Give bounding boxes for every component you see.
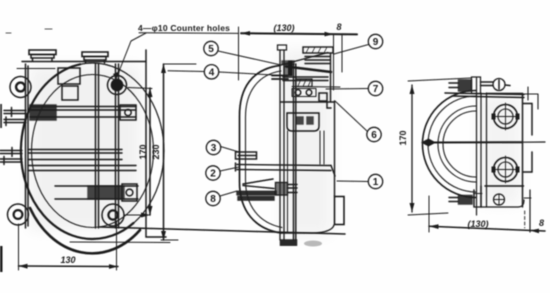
thick bar stub <box>237 191 276 194</box>
plate front verticals <box>477 78 487 215</box>
callout 9 <box>334 34 383 54</box>
conduit cap C2 top-right <box>82 52 108 63</box>
scan wash right view <box>480 96 520 204</box>
small gear box upper <box>58 68 80 100</box>
dome inner profile <box>246 71 283 228</box>
lamp holder hatched block <box>296 79 312 87</box>
ear lobe top-left <box>10 77 31 98</box>
arrowhead counter holes <box>113 71 120 79</box>
svg-text:3: 3 <box>211 143 217 154</box>
conduit coupling (hatched) <box>276 183 288 196</box>
centerline diamond <box>421 139 436 147</box>
left pipe stub 3 <box>0 148 22 157</box>
dome arc 3 <box>438 106 476 182</box>
right view step tick <box>524 197 531 199</box>
bottom skirt arc <box>30 208 140 253</box>
leader: counter holes note <box>116 33 146 79</box>
bracket top edges <box>445 93 524 98</box>
dome arc inner <box>443 111 476 177</box>
lamp base lines <box>283 77 328 81</box>
callout 6 <box>335 101 381 142</box>
dim 170 ticks <box>408 78 471 215</box>
svg-text:9: 9 <box>373 37 379 48</box>
box bottom step <box>474 193 483 195</box>
dim 230 arrows <box>161 64 166 240</box>
guard bar stub 1 (side view) <box>236 152 257 159</box>
svg-text:(130): (130) <box>467 219 488 229</box>
callout 2 <box>206 166 239 180</box>
svg-text:170: 170 <box>398 130 408 145</box>
callout 7 <box>326 81 383 95</box>
dome arc 2 <box>428 96 476 192</box>
scan edge artifact lower-left <box>0 246 3 272</box>
svg-text:7: 7 <box>373 84 379 95</box>
housing step <box>327 102 331 108</box>
base plate right edge <box>146 50 166 237</box>
counter hole top-right (dark) <box>111 79 122 90</box>
plate second top line <box>17 68 55 70</box>
bolt circle lower <box>492 156 520 183</box>
hole bottom-right <box>108 210 117 219</box>
left pipe stub 2 <box>4 117 26 126</box>
dim 130 arrows <box>19 264 119 269</box>
right ext lines <box>529 190 531 232</box>
dim (130) top: left extension <box>238 27 240 80</box>
dim 230 top tick <box>164 63 197 65</box>
svg-text:8: 8 <box>210 194 216 205</box>
top line to eyebolt <box>481 82 494 86</box>
dim 130 bottom line <box>19 265 119 268</box>
dome arc outer <box>422 91 476 198</box>
dim 230 bottom tick <box>161 239 178 241</box>
dim (130) top line <box>241 33 357 34</box>
guard bar stub 2 <box>236 163 332 171</box>
dim 130 bottom: extension lines <box>19 221 117 270</box>
holder bolt marks <box>292 87 340 97</box>
callout 1 <box>337 174 383 188</box>
bolt circle upper <box>492 103 520 130</box>
dome outer profile <box>240 66 282 234</box>
left pipe stub 4 <box>0 157 22 165</box>
callout 3 <box>206 140 239 154</box>
base plate top edge <box>22 61 146 63</box>
housing bolt right <box>319 93 327 101</box>
svg-text:5: 5 <box>208 44 214 55</box>
dim 170 arrows <box>148 88 153 215</box>
note underline <box>139 32 238 35</box>
housing inner box <box>287 113 319 131</box>
plate top block <box>472 77 481 94</box>
svg-text:2: 2 <box>210 169 216 180</box>
bracket diagonal top edge <box>281 53 328 66</box>
bottom extension line y242 <box>70 241 170 244</box>
centerline right extension <box>522 141 545 143</box>
svg-text:4—φ10 Counter holes: 4—φ10 Counter holes <box>138 23 230 33</box>
lobe top-right <box>108 76 127 95</box>
scan wash left view <box>30 66 140 230</box>
scan edge artifact mid-left <box>0 104 2 128</box>
right plate outline <box>487 94 533 208</box>
lamp cap top <box>282 61 294 75</box>
conduit cap C1 top-left <box>29 50 56 62</box>
dim 230 line <box>163 64 165 240</box>
plate top cap <box>278 45 287 50</box>
mounting plate verticals <box>280 50 284 240</box>
thick bar stub 2 <box>238 197 274 201</box>
right ext dashed <box>524 211 526 228</box>
svg-text:1: 1 <box>373 177 379 188</box>
guard ring outer bold arc <box>21 64 134 239</box>
center column verticals <box>96 64 119 228</box>
svg-text:170: 170 <box>138 144 148 159</box>
far right flange <box>523 87 539 109</box>
wedge part <box>243 179 274 189</box>
smudge bottom middle <box>304 241 322 247</box>
leader bottom-right ear to dim <box>124 214 149 216</box>
tick counterhole to dim <box>128 88 152 89</box>
dim 170 right arrows <box>410 85 415 212</box>
pipe lines <box>288 185 298 193</box>
dim (130) bottom right line <box>429 226 545 231</box>
eyebolt circle <box>493 79 510 91</box>
ear lobe bottom-left <box>8 204 29 225</box>
ear lobe bottom-right <box>102 204 124 226</box>
top bolt (hatched) <box>449 80 472 91</box>
bottom conduit assembly <box>449 186 524 207</box>
svg-text:(130): (130) <box>273 23 294 33</box>
dim 170 right: line <box>411 85 413 212</box>
svg-text:8: 8 <box>336 22 341 32</box>
dim 170 line <box>149 88 151 215</box>
plate inner line <box>485 185 524 187</box>
svg-text:6: 6 <box>371 130 377 141</box>
bracket diagonal bottom band <box>286 67 331 73</box>
svg-text:8: 8 <box>539 218 544 228</box>
callout 4 <box>168 65 283 79</box>
scan wash middle view <box>282 50 331 235</box>
lamp rim stubs <box>272 76 288 80</box>
terminal box right <box>335 197 345 225</box>
stub 2 right corner <box>331 166 335 177</box>
speckle marks top <box>6 29 52 33</box>
svg-text:230: 230 <box>151 144 161 159</box>
plate foot <box>281 240 297 245</box>
dim (130) bottom right: extension left <box>428 196 430 232</box>
dim (130) arrows <box>241 31 334 36</box>
guard bar D <box>55 184 138 201</box>
dim arrows bottom right <box>429 224 539 233</box>
top bracket lug (hatched) <box>303 47 333 64</box>
guard ring inner (front view) <box>32 75 154 228</box>
guard bar C <box>28 166 136 171</box>
centerline <box>428 141 522 143</box>
lamp neck dark <box>288 61 293 77</box>
guard bar B <box>28 150 122 160</box>
svg-text:130: 130 <box>60 255 75 265</box>
hole top-left <box>16 83 25 92</box>
long ground line <box>100 227 345 234</box>
guard ring outer (front view) <box>21 63 164 239</box>
housing inner verticals <box>288 131 325 233</box>
housing outline <box>281 53 335 233</box>
callout 5 <box>204 41 281 65</box>
left pipe stub 1 <box>4 108 26 117</box>
guard bar A <box>30 105 136 120</box>
dim 8 extension lines <box>334 34 343 90</box>
svg-text:4: 4 <box>209 67 215 78</box>
arrow at 170 bottom <box>141 213 150 218</box>
callout 8 <box>206 191 237 206</box>
lamp back verticals <box>294 64 296 240</box>
hole bottom-left <box>14 210 23 219</box>
base plate left edge <box>26 64 29 228</box>
